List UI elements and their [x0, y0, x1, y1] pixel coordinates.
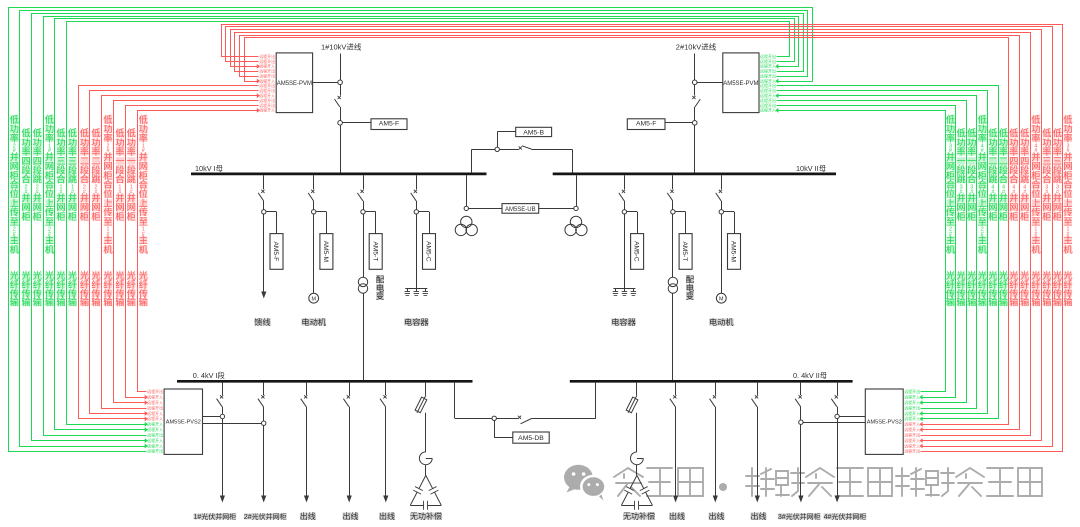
svg-text:远程开入: 远程开入 [760, 107, 776, 113]
svg-text:低功率1#并网柜合位上传至1#主机: 低功率1#并网柜合位上传至1#主机 [139, 114, 149, 255]
svg-text:低功率四段合4#并网柜: 低功率四段合4#并网柜 [1009, 128, 1019, 222]
svg-text:低功率一段合3#并网柜: 低功率一段合3#并网柜 [967, 128, 977, 222]
svg-text:AM5SE-PVM: AM5SE-PVM [277, 81, 312, 87]
svg-text:远程开入: 远程开入 [904, 421, 920, 427]
svg-text:远程开出: 远程开出 [147, 404, 163, 410]
svg-text:AM5SE-PVS2: AM5SE-PVS2 [166, 420, 201, 426]
svg-text:出线: 出线 [709, 511, 725, 521]
svg-text:AM5-DB: AM5-DB [518, 435, 544, 442]
svg-text:光纤传输: 光纤传输 [1053, 270, 1063, 307]
svg-text:AM5-C: AM5-C [425, 241, 432, 262]
svg-text:光纤传输: 光纤传输 [56, 270, 66, 307]
svg-text:低功率一段跳3#并网柜: 低功率一段跳3#并网柜 [956, 128, 966, 222]
svg-text:低功率2#并网柜合位上传至2#主机: 低功率2#并网柜合位上传至2#主机 [10, 114, 20, 255]
svg-text:AM5-T: AM5-T [371, 242, 378, 262]
svg-text:低功率4#并网柜合位上传至2#主机: 低功率4#并网柜合位上传至2#主机 [978, 114, 988, 255]
svg-text:低功率二段跳4#并网柜: 低功率二段跳4#并网柜 [988, 128, 998, 222]
svg-text:光纤传输: 光纤传输 [999, 270, 1009, 307]
svg-text:配电变: 配电变 [376, 275, 385, 302]
svg-text:AM5SE-PVS2: AM5SE-PVS2 [867, 420, 902, 426]
svg-text:光纤传输: 光纤传输 [21, 270, 31, 307]
svg-text:远程开入: 远程开入 [147, 442, 163, 448]
svg-text:1#10kV进线: 1#10kV进线 [321, 42, 362, 52]
svg-text:出线: 出线 [669, 511, 685, 521]
svg-text:远程开入: 远程开入 [904, 394, 920, 400]
svg-text:远程开出: 远程开出 [147, 388, 163, 394]
svg-text:远程开入: 远程开入 [147, 421, 163, 427]
svg-text:光纤传输: 光纤传输 [946, 270, 956, 307]
svg-text:AM5SE-UB: AM5SE-UB [505, 207, 536, 213]
svg-text:远程开出: 远程开出 [904, 404, 920, 410]
svg-text:1#光伏并网柜: 1#光伏并网柜 [194, 512, 237, 521]
svg-text:远程开入: 远程开入 [147, 410, 163, 416]
svg-text:低功率二段合4#并网柜: 低功率二段合4#并网柜 [999, 128, 1009, 222]
svg-text:低功率三段跳3#并网柜: 低功率三段跳3#并网柜 [1053, 128, 1063, 222]
svg-text:0. 4kV II母: 0. 4kV II母 [793, 371, 827, 380]
svg-text:低功率一段合1#并网柜: 低功率一段合1#并网柜 [115, 128, 125, 222]
svg-text:光纤传输: 光纤传输 [1031, 270, 1041, 307]
svg-text:4#光伏并网柜: 4#光伏并网柜 [824, 512, 867, 521]
svg-text:AM5-T: AM5-T [681, 242, 688, 262]
svg-text:10kV II母: 10kV II母 [796, 164, 826, 173]
svg-text:远程开入: 远程开入 [904, 442, 920, 448]
svg-text:M: M [719, 296, 724, 302]
svg-text:光纤传输: 光纤传输 [91, 270, 101, 307]
svg-text:光纤传输: 光纤传输 [1020, 270, 1030, 307]
svg-text:低功率三段合1#并网柜: 低功率三段合1#并网柜 [56, 128, 66, 222]
svg-text:M: M [311, 296, 316, 302]
svg-text:光纤传输: 光纤传输 [45, 270, 55, 307]
svg-text:低功率四段跳4#并网柜: 低功率四段跳4#并网柜 [1020, 128, 1030, 222]
svg-text:电容器: 电容器 [404, 317, 429, 327]
svg-text:低功率3#并网柜合位上传至1#主机: 低功率3#并网柜合位上传至1#主机 [1063, 114, 1073, 255]
svg-text:光纤传输: 光纤传输 [80, 270, 90, 307]
svg-text:远程开入: 远程开入 [904, 426, 920, 432]
svg-text:远程开入: 远程开入 [147, 399, 163, 405]
svg-text:远程开入: 远程开入 [147, 394, 163, 400]
svg-text:AM5-F: AM5-F [272, 242, 279, 262]
svg-text:低功率二段合2#并网柜: 低功率二段合2#并网柜 [80, 128, 90, 222]
svg-text:远程开出: 远程开出 [147, 448, 163, 454]
svg-text:出线: 出线 [379, 511, 395, 521]
svg-text:AM5-F: AM5-F [636, 120, 656, 127]
svg-text:电动机: 电动机 [301, 317, 326, 327]
svg-text:远程开出: 远程开出 [147, 432, 163, 438]
svg-text:低功率一段跳1#并网柜: 低功率一段跳1#并网柜 [127, 128, 137, 222]
svg-text:光纤传输: 光纤传输 [956, 270, 966, 307]
svg-text:AM5SE-PVM: AM5SE-PVM [723, 81, 758, 87]
svg-text:光纤传输: 光纤传输 [988, 270, 998, 307]
svg-text:3#光伏并网柜: 3#光伏并网柜 [778, 512, 821, 521]
svg-text:无功补偿: 无功补偿 [410, 511, 442, 521]
svg-text:光纤传输: 光纤传输 [127, 270, 137, 307]
svg-text:光纤传输: 光纤传输 [139, 270, 149, 307]
svg-text:低功率二段跳2#并网柜: 低功率二段跳2#并网柜 [91, 128, 101, 222]
svg-text:远程开入: 远程开入 [147, 437, 163, 443]
svg-text:光纤传输: 光纤传输 [978, 270, 988, 307]
svg-text:2#10kV进线: 2#10kV进线 [676, 42, 717, 52]
svg-text:出线: 出线 [300, 511, 316, 521]
svg-text:低功率三段合3#并网柜: 低功率三段合3#并网柜 [1042, 128, 1052, 222]
svg-text:电动机: 电动机 [709, 317, 734, 327]
svg-text:远程开入: 远程开入 [904, 399, 920, 405]
svg-text:远程开入: 远程开入 [147, 415, 163, 421]
svg-text:AM5-F: AM5-F [379, 120, 399, 127]
svg-text:光纤传输: 光纤传输 [33, 270, 43, 307]
svg-text:AM5-M: AM5-M [730, 241, 737, 262]
svg-text:光纤传输: 光纤传输 [115, 270, 125, 307]
svg-text:远程开入: 远程开入 [259, 107, 275, 113]
svg-text:光纤传输: 光纤传输 [10, 270, 20, 307]
svg-text:远程开入: 远程开入 [904, 437, 920, 443]
svg-text:低功率四段跳2#并网柜: 低功率四段跳2#并网柜 [33, 128, 43, 222]
svg-text:远程开出: 远程开出 [904, 388, 920, 394]
svg-text:低功率3#并网柜合位上传至2#主机: 低功率3#并网柜合位上传至2#主机 [946, 114, 956, 255]
svg-text:10kV I母: 10kV I母 [195, 164, 223, 173]
svg-text:2#光伏并网柜: 2#光伏并网柜 [244, 512, 287, 521]
svg-text:远程开入: 远程开入 [147, 426, 163, 432]
svg-text:光纤传输: 光纤传输 [967, 270, 977, 307]
svg-text:远程开出: 远程开出 [904, 432, 920, 438]
svg-text:出线: 出线 [343, 511, 359, 521]
svg-text:无功补偿: 无功补偿 [623, 511, 655, 521]
svg-text:电容器: 电容器 [611, 317, 636, 327]
svg-text:AM5-M: AM5-M [322, 241, 329, 262]
svg-text:配电变: 配电变 [686, 275, 695, 302]
svg-text:光纤传输: 光纤传输 [1042, 270, 1052, 307]
svg-text:低功率四段合2#并网柜: 低功率四段合2#并网柜 [21, 128, 31, 222]
svg-text:AM5-C: AM5-C [633, 241, 640, 262]
svg-text:低功率4#并网柜合位上传至1#主机: 低功率4#并网柜合位上传至1#主机 [1031, 114, 1041, 255]
svg-text:出线: 出线 [751, 511, 767, 521]
svg-text:光纤传输: 光纤传输 [1009, 270, 1019, 307]
svg-text:AM5-B: AM5-B [523, 129, 544, 136]
svg-text:光纤传输: 光纤传输 [68, 270, 78, 307]
svg-text:远程开入: 远程开入 [904, 410, 920, 416]
svg-text:光纤传输: 光纤传输 [1063, 270, 1073, 307]
svg-text:远程开入: 远程开入 [904, 415, 920, 421]
svg-text:低功率2#并网柜合位上传至1#主机: 低功率2#并网柜合位上传至1#主机 [103, 114, 113, 255]
svg-text:远程开出: 远程开出 [904, 448, 920, 454]
svg-text:低功率三段跳1#并网柜: 低功率三段跳1#并网柜 [68, 128, 78, 222]
svg-text:0. 4kV I段: 0. 4kV I段 [193, 371, 225, 380]
svg-text:馈线: 馈线 [254, 317, 270, 327]
svg-text:低功率1#并网柜合位上传至2#主机: 低功率1#并网柜合位上传至2#主机 [45, 114, 55, 255]
svg-text:光纤传输: 光纤传输 [103, 270, 113, 307]
